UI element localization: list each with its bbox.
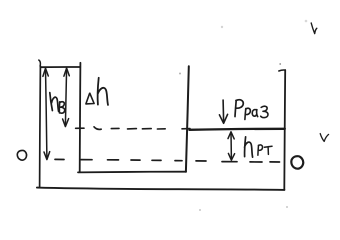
arrow h_v top head — [43, 68, 48, 76]
outer vessel left wall top hook — [39, 60, 41, 66]
stray checkmark top right — [311, 23, 317, 34]
liquid surface line in right tank — [189, 129, 284, 130]
label h_rt : h — [245, 137, 253, 157]
outer vessel right wall top serif — [279, 70, 286, 71]
label P_raz : P — [235, 100, 243, 117]
label P_raz : r (cyrillic er) — [245, 108, 250, 119]
outer vessel left wall — [39, 66, 42, 188]
upper dashed level line (middle section) — [76, 127, 190, 130]
closed top of left tube — [41, 66, 80, 68]
inner wall: bottom of middle channel — [78, 171, 186, 174]
arrow delta-h bottom head — [63, 119, 69, 127]
label delta-h : triangle — [86, 93, 94, 104]
label h_v : h arch — [52, 97, 59, 111]
label h_rt : subscript t (cyrillic te) — [264, 146, 272, 154]
faint paper dots bottom — [199, 209, 201, 211]
label P_raz : a — [252, 110, 257, 117]
label P_raz : z (cyrillic ze) — [261, 106, 268, 117]
arrow p_raz head — [219, 114, 227, 123]
faint dot left of right tank wall — [179, 73, 181, 75]
arrow h_rt (double-headed) shaft — [230, 132, 232, 159]
inner wall: right side of left tube — [79, 63, 82, 172]
label delta-h : h — [98, 78, 108, 105]
arrow h_rt top head — [228, 132, 234, 139]
arrow delta-h top head — [64, 68, 69, 76]
outer vessel right wall — [283, 70, 286, 190]
arrow delta-h (double-headed) shaft — [65, 68, 66, 125]
outer vessel bottom — [37, 188, 285, 190]
inner wall: left side of right tank — [186, 66, 189, 171]
stray v mark right middle — [320, 134, 328, 142]
lower dashed O-O line — [55, 159, 280, 162]
label h_v : h stroke — [50, 93, 53, 111]
label h_v : subscript v (cyrillic ve) — [59, 102, 64, 113]
arrow p_raz (down) shaft — [222, 100, 225, 123]
label h_rt : subscript r (cyrillic er) — [258, 145, 263, 155]
arrow h_rt bottom head — [228, 153, 234, 160]
arrow h_v (left, double-headed) shaft — [46, 69, 47, 159]
right O axis label — [291, 156, 303, 168]
faint dot above right wall — [279, 63, 281, 65]
arrow h_v bottom head — [44, 152, 50, 160]
left O axis label — [17, 150, 26, 160]
